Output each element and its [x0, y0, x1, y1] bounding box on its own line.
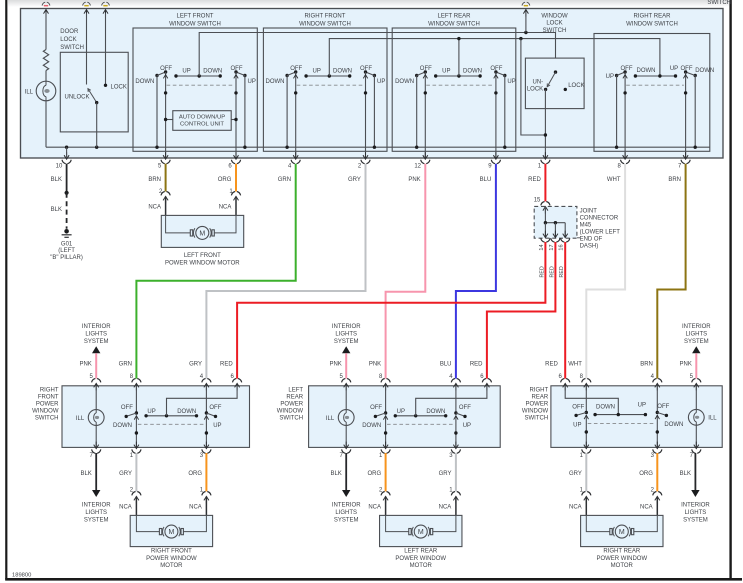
- svg-text:OFF: OFF: [459, 405, 471, 411]
- svg-text:MOTOR: MOTOR: [410, 563, 433, 569]
- left front window switch right pivot wire to pin: [234, 72, 238, 158]
- junction locked feed / lock bypass: [519, 37, 522, 40]
- svg-text:BRN: BRN: [668, 177, 681, 183]
- svg-text:OFF: OFF: [370, 405, 382, 411]
- svg-text:UP: UP: [377, 79, 385, 85]
- svg-text:ILL: ILL: [76, 416, 85, 422]
- label left rear window switch title: [428, 13, 480, 27]
- left rear window switch DOWN contact: [415, 74, 418, 149]
- label OFF left front window switch right: [231, 66, 243, 72]
- svg-text:DOWN: DOWN: [333, 68, 352, 74]
- svg-text:LIGHTS: LIGHTS: [85, 510, 107, 516]
- right front right lever OFF: [206, 413, 217, 418]
- label OFF rr master right: [681, 66, 693, 72]
- right front window switch DOWN contact: [285, 74, 288, 149]
- svg-text:GRY: GRY: [439, 471, 452, 477]
- label ORG below lower switch x=385.6: [368, 471, 382, 477]
- right front center contact line: [144, 414, 198, 417]
- svg-text:OFF: OFF: [290, 66, 302, 72]
- right front motor internal wiring: [136, 515, 206, 531]
- svg-text:PNK: PNK: [680, 362, 692, 368]
- cropped title POWER WINDOW MASTER SWITCH: [707, 0, 731, 6]
- svg-text:G01: G01: [61, 241, 73, 247]
- rr master left pivot wire to pin 8: [623, 72, 627, 158]
- wire WHT pin 8 to right rear switch pin 8: [586, 164, 625, 379]
- right front window switch center contact line: [304, 74, 351, 77]
- right front window switch left lever OFF: [287, 70, 297, 75]
- left rear window switch box: [392, 28, 516, 151]
- door lock switch box: [60, 52, 128, 132]
- svg-text:RIGHT REAR: RIGHT REAR: [634, 13, 672, 19]
- svg-text:MOTOR: MOTOR: [160, 563, 183, 569]
- svg-text:SYSTEM: SYSTEM: [684, 339, 709, 345]
- wire lock bypass to unlock output: [521, 39, 546, 135]
- svg-text:BRN: BRN: [148, 177, 161, 183]
- svg-text:NCA: NCA: [569, 505, 582, 511]
- svg-text:POWER: POWER: [526, 402, 549, 408]
- svg-text:DOOR: DOOR: [60, 29, 79, 35]
- top connector pin D at x=525.9: [522, 2, 530, 16]
- svg-text:ILL: ILL: [25, 89, 34, 95]
- interior lights system feed (up arrow) at x=696.3: [682, 324, 711, 379]
- svg-text:DOWN: DOWN: [637, 68, 656, 74]
- right rear motor internal wiring: [586, 515, 657, 531]
- label left rear power window switch: [277, 388, 304, 422]
- label LOCK door lock: [111, 84, 127, 90]
- power window master switch box: [21, 9, 724, 159]
- svg-text:ORG: ORG: [639, 471, 653, 477]
- junction rail to door lock switch: [95, 146, 98, 149]
- contact LOCK door lock switch: [104, 84, 107, 87]
- svg-text:UP: UP: [573, 422, 581, 428]
- left front window switch left pivot wire to pin: [163, 72, 167, 158]
- svg-text:BLU: BLU: [440, 362, 452, 368]
- svg-text:LIGHTS: LIGHTS: [335, 510, 357, 516]
- svg-text:M: M: [199, 230, 205, 237]
- right rear motor pin 1: [569, 488, 591, 516]
- master switch pin 2 (GRY): [348, 152, 370, 183]
- svg-text:SYSTEM: SYSTEM: [683, 518, 708, 524]
- right rear ILL lamp wire: [695, 386, 697, 448]
- master switch pin 10 (BLK): [51, 152, 72, 183]
- svg-text:OFF: OFF: [231, 66, 243, 72]
- window lock switch box: [525, 58, 584, 109]
- svg-text:M: M: [418, 529, 424, 536]
- label BLK below lower switch x=96.2: [80, 471, 91, 477]
- joint connector pin 14: [539, 231, 550, 251]
- left front window switch dashed mech link: [167, 84, 235, 86]
- svg-text:LEFT FRONT: LEFT FRONT: [177, 13, 214, 19]
- svg-text:ILL: ILL: [708, 416, 717, 422]
- svg-text:DOWN: DOWN: [596, 405, 615, 411]
- right rear left lever OFF: [574, 413, 586, 418]
- wire GRN pin 4 to right front switch pin 8: [136, 164, 295, 379]
- wire right switch output to right rear motor: [656, 453, 658, 491]
- label OFF rr master left: [621, 66, 633, 72]
- svg-text:M: M: [168, 529, 174, 536]
- lamp ILL left rear: [338, 410, 354, 426]
- svg-text:NCA: NCA: [189, 505, 202, 511]
- svg-text:UP: UP: [182, 68, 190, 74]
- svg-text:REAR: REAR: [532, 395, 549, 401]
- left front window switch center contact line: [174, 74, 222, 77]
- right rear switch top pin 6: [559, 374, 570, 390]
- wire RED pin 1 to joint connector pin 15: [544, 164, 546, 202]
- svg-text:16: 16: [559, 244, 565, 250]
- right front left pivot wire: [134, 386, 138, 448]
- label OFF right front window switch left: [290, 66, 302, 72]
- svg-text:UP: UP: [147, 409, 155, 415]
- label UP rr master center: [670, 66, 678, 72]
- resistor ILL dropping: [43, 50, 48, 71]
- wire right switch output to left rear motor: [455, 453, 457, 491]
- left front power window motor box: [161, 215, 243, 247]
- svg-text:ORG: ORG: [218, 177, 232, 183]
- label RED rotated wire 16: [559, 266, 565, 277]
- label PNK above lower switch pin x=96.2: [79, 362, 91, 368]
- left rear switch bottom pin 7: [340, 442, 351, 460]
- svg-text:OFF: OFF: [490, 66, 502, 72]
- right front motor pin 1: [189, 488, 211, 516]
- svg-text:INTERIOR: INTERIOR: [332, 503, 361, 509]
- svg-text:SWITCH: SWITCH: [525, 416, 549, 422]
- wire right switch output to right front motor: [205, 453, 207, 491]
- svg-text:OFF: OFF: [621, 66, 633, 72]
- svg-text:DOWN: DOWN: [362, 423, 381, 429]
- label DOWN left rear center: [426, 409, 445, 415]
- left front window switch box: [133, 28, 257, 151]
- left rear left pivot wire: [383, 386, 387, 448]
- wire power feed LF middle to window lock pivot: [199, 33, 555, 77]
- label UP right front center: [147, 409, 155, 415]
- label UNLOCK door lock: [65, 95, 90, 101]
- left rear motor internal wiring: [386, 515, 456, 531]
- svg-text:LIGHTS: LIGHTS: [85, 332, 107, 338]
- auto unit right stub: [231, 118, 238, 121]
- svg-text:12: 12: [414, 163, 421, 169]
- label OFF left rear left: [370, 405, 382, 411]
- rr master dashed mech link: [626, 84, 684, 86]
- label DOWN right front center: [177, 409, 196, 415]
- svg-text:BLK: BLK: [330, 471, 341, 477]
- left rear motor pin 2: [368, 488, 390, 516]
- label OFF left front window switch left: [160, 66, 172, 72]
- label DOWN right front window switch: [266, 79, 285, 85]
- right front switch top pin 8: [130, 374, 141, 390]
- svg-text:UP: UP: [397, 409, 405, 415]
- left rear power window switch box: [309, 386, 501, 448]
- label OFF right front left: [121, 405, 133, 411]
- label BLK below lower switch x=695.4: [680, 471, 691, 477]
- master switch pin 5 (BRN): [148, 152, 170, 183]
- right front right pivot wire: [204, 386, 208, 448]
- wire GRY pin 2 to right front switch pin 4: [206, 164, 365, 379]
- svg-text:GRY: GRY: [189, 362, 202, 368]
- label UP right rear center: [638, 402, 646, 408]
- label UP left rear right: [463, 423, 471, 429]
- svg-text:BLK: BLK: [51, 177, 62, 183]
- wire ORG master pin 6 to motor pin 1: [219, 164, 241, 216]
- left rear switch bottom pin 3: [449, 442, 460, 460]
- svg-text:SWITCH: SWITCH: [707, 0, 731, 6]
- svg-text:POWER: POWER: [36, 402, 59, 408]
- svg-text:SWITCH: SWITCH: [35, 416, 59, 422]
- label DOWN left rear window switch: [395, 79, 414, 85]
- label GRY above lower switch pin x=206.4: [189, 362, 202, 368]
- top connector pin B at x=86.5: [83, 2, 91, 16]
- motor M right rear: [610, 525, 634, 538]
- svg-text:DOWN: DOWN: [113, 423, 132, 429]
- rr master left lever OFF: [617, 70, 627, 75]
- label right front power window switch: [32, 388, 59, 422]
- svg-text:LOCK: LOCK: [527, 87, 543, 93]
- svg-text:BRN: BRN: [640, 362, 653, 368]
- wire PNK pin 12 to left rear switch pin 8: [386, 164, 426, 379]
- svg-text:CONTROL UNIT: CONTROL UNIT: [180, 122, 224, 128]
- auto down/up control unit box: [173, 111, 231, 131]
- svg-text:NCA: NCA: [148, 205, 161, 211]
- svg-text:POWER: POWER: [280, 402, 303, 408]
- svg-text:WHT: WHT: [607, 177, 621, 183]
- svg-text:JOINT: JOINT: [580, 209, 598, 215]
- right rear feed from pin 6: [565, 386, 618, 415]
- page border left: [5, 0, 7, 580]
- label BRN above lower switch pin x=657.3: [640, 362, 653, 368]
- left rear window switch right pivot wire to pin: [494, 72, 498, 158]
- left rear window switch UP contact: [503, 74, 506, 149]
- svg-text:INTERIOR: INTERIOR: [332, 324, 361, 330]
- svg-text:LIGHTS: LIGHTS: [335, 332, 357, 338]
- interior lights system feed (up arrow) at x=346.2: [332, 324, 361, 379]
- label PNK above lower switch pin x=346.2: [329, 362, 341, 368]
- label OFF left rear right: [459, 405, 471, 411]
- right front switch bottom pin 1: [130, 442, 141, 460]
- right rear right lever OFF: [657, 413, 668, 418]
- left front window switch right lever OFF: [234, 70, 245, 75]
- top connector pin C at x=105.5: [102, 2, 110, 16]
- motor M right front: [159, 525, 183, 538]
- page border bottom: [5, 578, 742, 581]
- svg-text:CONNECTOR: CONNECTOR: [580, 216, 619, 222]
- svg-text:LOCK: LOCK: [568, 83, 584, 89]
- label left front window switch title: [169, 13, 221, 27]
- wire left switch output to right rear motor: [585, 453, 587, 491]
- right front left lever OFF: [125, 413, 137, 418]
- wire left switch output to left rear motor: [385, 453, 387, 491]
- svg-text:POWER WINDOW: POWER WINDOW: [596, 556, 647, 562]
- svg-text:LEFT FRONT: LEFT FRONT: [184, 253, 221, 259]
- right front switch bottom pin 7: [90, 442, 101, 460]
- svg-text:DASH): DASH): [580, 244, 599, 250]
- svg-text:14: 14: [539, 244, 545, 250]
- svg-text:LOCK: LOCK: [546, 21, 562, 27]
- joint connector pin 17: [549, 231, 560, 251]
- label RED rotated wire 14: [539, 266, 545, 277]
- right rear switch top pin 4: [651, 374, 662, 390]
- svg-text:WHT: WHT: [568, 362, 582, 368]
- svg-text:INTERIOR: INTERIOR: [82, 324, 111, 330]
- svg-text:RIGHT: RIGHT: [530, 388, 549, 394]
- label ILL: [25, 89, 34, 95]
- svg-text:PNK: PNK: [329, 362, 341, 368]
- label DOWN rr master center: [637, 68, 656, 74]
- svg-text:GRY: GRY: [569, 471, 582, 477]
- svg-text:UP: UP: [248, 79, 256, 85]
- svg-text:DOWN: DOWN: [135, 79, 154, 85]
- lamp ILL master switch: [36, 81, 56, 101]
- ground rail: [46, 146, 710, 148]
- rr master right lever OFF: [684, 70, 695, 75]
- svg-text:RIGHT REAR: RIGHT REAR: [603, 549, 641, 555]
- svg-text:UP: UP: [213, 423, 221, 429]
- right front window switch UP contact: [373, 74, 376, 149]
- svg-text:ORG: ORG: [368, 471, 382, 477]
- label DOWN left rear left: [362, 423, 381, 429]
- wire top connector D drop: [525, 13, 527, 32]
- contact LOCK window lock: [564, 88, 567, 91]
- master switch pin 6 (ORG): [218, 152, 241, 183]
- page border right: [729, 0, 731, 580]
- right front ILL lamp wire: [95, 386, 97, 448]
- label right rear power window motor: [596, 549, 647, 570]
- label DOWN left rear window switch center: [463, 68, 482, 74]
- svg-text:PNK: PNK: [408, 177, 420, 183]
- master switch pin 7 (BRN): [668, 152, 690, 183]
- svg-text:SWITCH: SWITCH: [279, 416, 303, 422]
- master switch pin 4 (GRN): [278, 152, 301, 183]
- label LEFT FRONT POWER WINDOW MOTOR: [165, 253, 240, 266]
- right rear switch top pin 5: [690, 374, 701, 390]
- svg-text:INTERIOR: INTERIOR: [682, 324, 711, 330]
- label UP right front window switch right: [377, 79, 385, 85]
- left rear dashed mech link: [387, 423, 455, 425]
- svg-text:NCA: NCA: [119, 505, 132, 511]
- svg-text:GRY: GRY: [348, 177, 361, 183]
- svg-text:M: M: [619, 529, 625, 536]
- right front window switch right pivot wire to pin: [363, 72, 367, 158]
- label UP left rear window switch right: [507, 79, 515, 85]
- label OFF right rear right: [657, 404, 669, 410]
- label DOWN right rear right: [664, 422, 683, 428]
- svg-text:OFF: OFF: [360, 66, 372, 72]
- right rear window switch box: [594, 34, 710, 152]
- svg-text:OFF: OFF: [209, 405, 221, 411]
- label GRN above lower switch pin x=136.4: [119, 362, 132, 368]
- svg-text:LEFT: LEFT: [288, 388, 303, 394]
- label UP left rear center: [397, 409, 405, 415]
- svg-text:LOCK: LOCK: [111, 84, 127, 90]
- wire ILL lamp to ground rail: [45, 101, 47, 147]
- svg-text:SWITCH: SWITCH: [60, 45, 84, 51]
- svg-text:ORG: ORG: [188, 471, 202, 477]
- svg-text:RIGHT FRONT: RIGHT FRONT: [151, 549, 192, 555]
- label right rear power window switch: [522, 388, 549, 422]
- joint connector pin 15: [541, 202, 550, 214]
- wire BLK pin 10 to splice: [66, 164, 68, 193]
- motor M left rear: [409, 525, 433, 538]
- label ORG below lower switch x=657.3: [639, 471, 653, 477]
- wire BLK to interior lights (down) at x=346.2: [332, 453, 361, 524]
- top connector pin A at x=46: [42, 2, 50, 16]
- label ILL right rear: [708, 416, 717, 422]
- svg-text:189800: 189800: [12, 573, 31, 579]
- label ORG below lower switch x=206.4: [188, 471, 202, 477]
- wire door lock pivot feed from top connector B: [86, 13, 88, 84]
- svg-text:(LEFT: (LEFT: [58, 248, 75, 254]
- svg-text:RED: RED: [220, 362, 233, 368]
- right front motor pin 2: [119, 488, 141, 516]
- junction rail to pin 10: [65, 146, 68, 149]
- left rear window switch dashed mech link: [426, 84, 494, 86]
- wire unlock contact to pin 1: [544, 89, 547, 158]
- svg-text:(LOWER LEFT: (LOWER LEFT: [580, 230, 621, 236]
- svg-text:UP: UP: [313, 68, 321, 74]
- svg-text:OFF: OFF: [681, 66, 693, 72]
- svg-text:UP: UP: [507, 79, 515, 85]
- svg-text:10: 10: [56, 163, 63, 169]
- label RED above lower switch pin x=562.2: [545, 362, 558, 368]
- label UP left front window switch center: [182, 68, 190, 74]
- label 15: [534, 198, 541, 204]
- right front dashed mech link: [138, 423, 205, 425]
- label ILL left rear: [326, 416, 335, 422]
- svg-text:DOWN: DOWN: [426, 409, 445, 415]
- wire RED joint pin 16 to right rear switch pin 6: [564, 242, 566, 379]
- svg-text:NCA: NCA: [368, 505, 381, 511]
- svg-text:DOWN: DOWN: [695, 68, 714, 74]
- window lock lever (unlock position): [547, 72, 555, 87]
- svg-text:SYSTEM: SYSTEM: [84, 518, 109, 524]
- left rear switch top pin 5: [340, 374, 351, 390]
- label RIGHT REAR WINDOW SWITCH title: [626, 13, 678, 27]
- right rear switch bottom pin 3: [651, 442, 662, 460]
- label OFF right front window switch right: [360, 66, 372, 72]
- right front power window switch box: [62, 386, 250, 448]
- label UN-LOCK: [527, 79, 543, 92]
- left front window switch DOWN contact: [155, 74, 158, 149]
- left front window switch left lever OFF: [157, 70, 167, 75]
- label UP left rear window switch center: [442, 68, 450, 74]
- label BLU above lower switch pin x=455.9: [440, 362, 452, 368]
- splice on BLK ground wire: [65, 191, 69, 195]
- svg-text:LEFT REAR: LEFT REAR: [438, 13, 472, 19]
- wire BRN pin 7 to right rear switch pin 4: [657, 164, 685, 379]
- right rear power window motor box: [581, 515, 663, 546]
- right rear motor pin 2: [640, 488, 662, 516]
- svg-text:WINDOW: WINDOW: [541, 13, 568, 19]
- svg-text:LOCK: LOCK: [60, 37, 76, 43]
- left rear switch top pin 8: [379, 374, 390, 390]
- left rear power window motor box: [380, 515, 462, 546]
- right front switch top pin 4: [200, 374, 211, 390]
- svg-text:RED: RED: [528, 177, 541, 183]
- svg-text:WINDOW SWITCH: WINDOW SWITCH: [626, 21, 678, 27]
- label GRY below lower switch x=586.3: [569, 471, 582, 477]
- svg-text:RED: RED: [549, 266, 555, 277]
- left rear ILL lamp wire: [345, 386, 347, 448]
- wire LR middle drop to locked feed: [457, 37, 460, 76]
- svg-text:UP: UP: [606, 74, 614, 80]
- master switch pin 9 (BLU): [480, 152, 501, 183]
- lamp ILL right front: [88, 410, 104, 426]
- svg-text:OFF: OFF: [420, 66, 432, 72]
- svg-text:WINDOW SWITCH: WINDOW SWITCH: [169, 21, 221, 27]
- svg-text:LEFT REAR: LEFT REAR: [404, 549, 438, 555]
- right rear left pivot wire: [584, 386, 588, 448]
- svg-text:UP: UP: [638, 402, 646, 408]
- ground G01 symbol: [62, 229, 72, 237]
- svg-text:M45: M45: [580, 223, 592, 229]
